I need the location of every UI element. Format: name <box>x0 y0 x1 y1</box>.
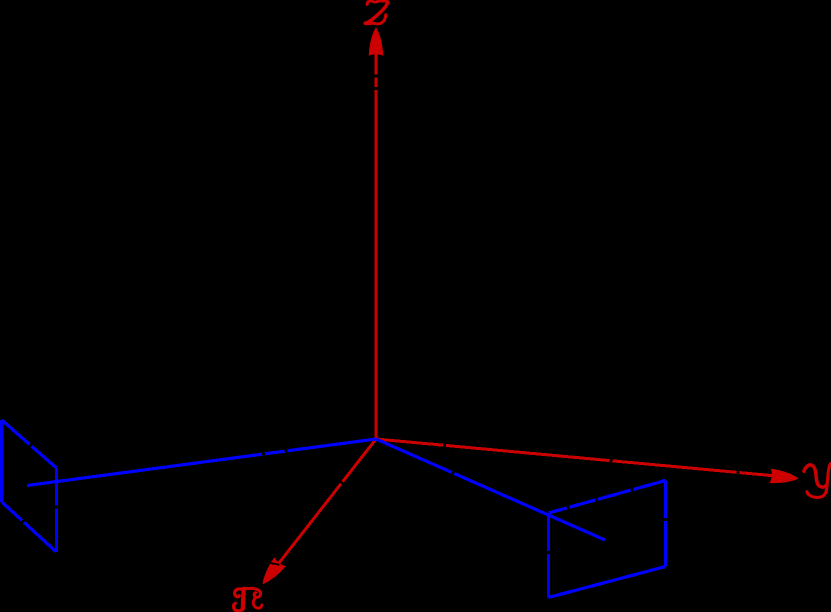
wire: y-axis shaft from origin node O <box>376 439 772 476</box>
wire: z-axis shaft from origin node O <box>375 54 378 439</box>
left image plane: right edge <box>55 468 58 552</box>
y-axis arrowhead <box>770 469 800 486</box>
left image plane: bottom edge <box>2 502 57 552</box>
x-axis arrowhead <box>257 557 286 588</box>
label z (math italic) <box>365 1 388 24</box>
wire: optical ray from origin O to right image plane <box>376 439 605 540</box>
left image plane: top edge <box>2 420 57 468</box>
z-axis arrowhead <box>369 27 383 56</box>
label y (math italic) <box>804 464 831 498</box>
right image plane: bottom edge <box>549 567 666 598</box>
dash-gap nicks: small breaks in the lines (raster texture) <box>22 75 739 554</box>
wire: optical ray from origin O to left image plane <box>27 439 376 486</box>
x-axis arrowhead barb crease <box>268 563 280 565</box>
right image plane: right edge <box>664 481 667 567</box>
label x (math italic) <box>234 588 262 611</box>
right image plane: top edge <box>549 481 666 514</box>
left image plane: left edge <box>0 420 3 502</box>
wire: x-axis shaft from origin node O <box>279 439 376 563</box>
right image plane: left edge <box>547 513 550 598</box>
